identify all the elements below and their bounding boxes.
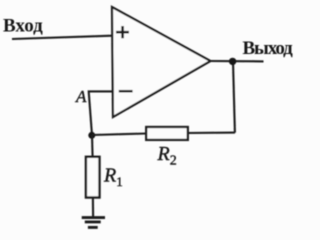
svg-text:Выход: Выход	[243, 38, 294, 59]
ground	[82, 218, 105, 228]
wire: output	[210, 60, 264, 63]
svg-text:R2: R2	[157, 143, 177, 169]
resistor R2	[146, 127, 188, 140]
wire: R2 to feedback corner	[188, 132, 235, 134]
svg-text:R1: R1	[103, 165, 123, 190]
svg-text:Вход: Вход	[3, 16, 43, 37]
op-amp U1	[112, 7, 211, 117]
wire: node A to R2	[92, 134, 147, 136]
wire: R1 to ground	[92, 198, 94, 218]
op-amp minus marking	[119, 90, 133, 93]
wire: feedback vertical	[233, 61, 235, 132]
junction output	[229, 58, 236, 65]
op-amp plus marking	[116, 26, 129, 38]
wire: inverting input from node A	[89, 91, 112, 135]
resistor R1	[86, 157, 100, 198]
wire: node A to R1	[91, 135, 94, 157]
junction node A	[88, 132, 95, 139]
wire: input to + terminal	[12, 36, 112, 39]
svg-text:A: A	[75, 87, 87, 106]
